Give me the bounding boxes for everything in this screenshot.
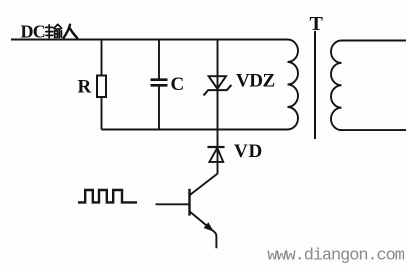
label DC输入 bbox=[21, 22, 78, 42]
svg-text:R: R bbox=[78, 76, 92, 97]
svg-text:VD: VD bbox=[234, 141, 263, 162]
wire resistor branch bottom bbox=[101, 97, 103, 130]
transformer T secondary winding bbox=[331, 41, 406, 131]
svg-text:VDZ: VDZ bbox=[236, 71, 275, 92]
svg-text:DC: DC bbox=[21, 22, 46, 42]
wire resistor branch top bbox=[101, 40, 103, 76]
capacitor C bbox=[151, 80, 168, 86]
svg-text:T: T bbox=[310, 13, 324, 35]
wire bottom rail bbox=[102, 129, 288, 131]
transformer core bbox=[314, 31, 316, 139]
resistor R bbox=[97, 76, 106, 98]
zener diode VDZ bbox=[204, 76, 232, 95]
svg-text:C: C bbox=[171, 74, 185, 95]
square wave input bbox=[78, 190, 137, 202]
transistor Q bbox=[156, 174, 218, 249]
svg-text:www.diangon.com: www.diangon.com bbox=[267, 247, 404, 266]
diode VD bbox=[208, 147, 225, 162]
wire capacitor branch top bbox=[158, 40, 160, 79]
transformer T primary winding bbox=[288, 40, 299, 130]
wire capacitor branch bottom bbox=[158, 87, 160, 130]
wire zener branch bbox=[217, 40, 219, 175]
wire top rail bbox=[11, 39, 288, 41]
